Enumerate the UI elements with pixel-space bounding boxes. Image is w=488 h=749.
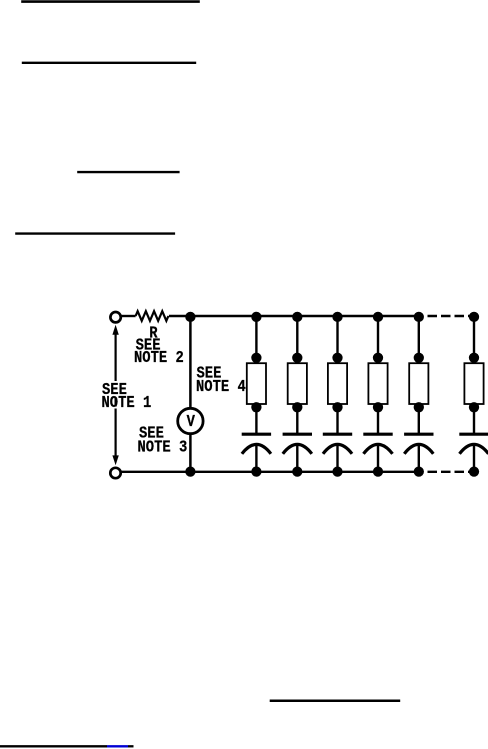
svg-text:NOTE 4: NOTE 4 [196, 377, 246, 397]
svg-text:NOTE 1: NOTE 1 [102, 393, 152, 413]
svg-text:NOTE 2: NOTE 2 [134, 348, 184, 368]
svg-text:V: V [187, 412, 196, 432]
svg-text:NOTE 3: NOTE 3 [138, 437, 188, 457]
